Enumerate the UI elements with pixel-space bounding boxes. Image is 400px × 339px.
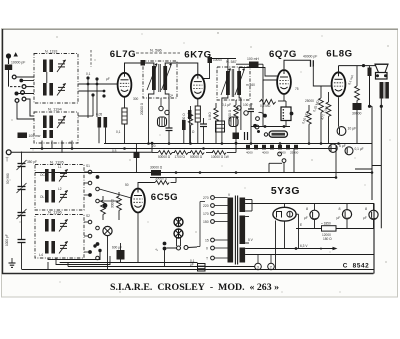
svg-text:8: 8	[365, 207, 367, 211]
capacitor mid 180	[182, 120, 186, 143]
power transformer secondary HT	[240, 216, 246, 245]
bus wire y228	[296, 228, 374, 230]
svg-text:30000: 30000	[111, 199, 115, 208]
wire right vertical bus 1	[371, 106, 373, 169]
wire right vertical bus 2	[380, 106, 382, 228]
svg-text:10000 Ω 1W: 10000 Ω 1W	[211, 155, 229, 159]
junction dots bus y172	[175, 171, 374, 179]
winding unit B2	[43, 130, 53, 138]
svg-text:C 8542: C 8542	[343, 263, 370, 270]
svg-text:220: 220	[203, 204, 209, 208]
svg-text:N. 1194: N. 1194	[48, 107, 62, 112]
band switch contacts lower	[88, 220, 99, 260]
resistor 50000 AVC zigzag	[158, 151, 172, 159]
mains switch	[155, 242, 188, 252]
svg-text:75: 75	[295, 87, 299, 91]
wire IF1 bottoms down	[149, 90, 170, 144]
IF transformer N.586	[136, 48, 180, 99]
antenna coil box N.1193	[34, 50, 78, 104]
wire box A lower tap	[79, 90, 106, 93]
capacitor 10000 pF antenna	[5, 61, 26, 71]
antenna coil box N.1194	[34, 107, 78, 144]
tube 6C5G oscillator	[131, 189, 145, 213]
wire avc joints	[151, 142, 238, 153]
speaker field coil	[368, 66, 372, 76]
svg-text:0,5 MΩ: 0,5 MΩ	[260, 104, 271, 108]
switch contact extra	[255, 125, 259, 129]
winding unit A1	[43, 60, 66, 73]
wire 6K7G to bus	[197, 122, 199, 143]
scan speckles	[10, 32, 391, 292]
tube 6Q7G	[277, 70, 291, 94]
wire 6K7G plate up	[204, 59, 210, 79]
IF2 padder component	[229, 117, 238, 127]
voltage selector terminals	[203, 196, 214, 261]
svg-text:270: 270	[203, 196, 209, 200]
wires coils to switch	[84, 172, 88, 252]
wire vertical x88	[87, 78, 89, 118]
secondary tap stubs	[245, 200, 252, 244]
wire speaker join horizontal	[372, 165, 381, 167]
terminal T	[6, 150, 12, 164]
winding unit A2	[43, 83, 66, 96]
wire inside box A	[46, 72, 48, 83]
IF1 trimmer screws	[159, 98, 169, 115]
bottom bus wire 3	[22, 269, 374, 271]
resistor 6K7G cathode	[195, 106, 200, 122]
coil mid 218	[216, 121, 225, 132]
svg-text:30000 Ω: 30000 Ω	[150, 166, 163, 170]
tube 6L7G	[118, 73, 132, 97]
IF1 primary winding	[152, 66, 156, 90]
wire resistor to bus	[124, 124, 126, 143]
capacitor 40000 pF coupling	[303, 55, 317, 67]
wire 6Q7G left grid leak	[263, 80, 277, 98]
winding unit O3	[45, 219, 68, 232]
svg-text:6C5G: 6C5G	[151, 192, 178, 203]
svg-text:5Y3G: 5Y3G	[271, 186, 300, 197]
top border line	[2, 29, 398, 31]
wire 6Q7G cathode down	[283, 95, 285, 101]
power transformer core	[235, 196, 237, 265]
svg-text:170: 170	[203, 212, 209, 216]
resistor 0,5 Mohm zigzag	[260, 99, 276, 108]
IF2 trimmer arrows	[221, 68, 245, 95]
wire 6Q7G grid cap top	[284, 60, 311, 69]
wire IF1 secondary to 6K7G grid	[165, 63, 198, 74]
svg-text:10000 pF: 10000 pF	[11, 61, 25, 65]
speaker cone	[375, 64, 389, 72]
capacitor 600 uF	[112, 246, 125, 260]
IF2 core	[232, 69, 234, 97]
bus wire y172.8	[35, 172, 372, 174]
capacitor 0,1 uF mains	[190, 259, 205, 271]
terminal a2	[10, 85, 34, 89]
resistor osc grid vertical zigzag	[111, 192, 122, 220]
wire 6L8G grid left	[313, 67, 331, 86]
svg-text:40000 pF: 40000 pF	[303, 55, 317, 59]
tone switch contacts	[269, 149, 294, 173]
svg-text:0,05: 0,05	[96, 113, 102, 117]
svg-text:L1: L1	[58, 165, 62, 169]
lamp terminal 3	[255, 255, 262, 270]
wire antenna down	[8, 70, 10, 87]
winding unit O2	[45, 190, 68, 203]
antenna terminal A	[6, 52, 18, 64]
wire right vertical to corner	[371, 169, 373, 200]
svg-text:OL: OL	[40, 195, 44, 199]
svg-text:8: 8	[306, 207, 308, 211]
svg-text:150: 150	[203, 220, 209, 224]
dial lamp 1	[174, 218, 183, 227]
wires box N.1194 drops	[42, 141, 72, 153]
wire 5Y3G plate drop	[284, 203, 286, 207]
terminal a1	[12, 75, 34, 79]
junction blob switch	[103, 203, 108, 208]
oscillator coil box N.1196	[35, 210, 84, 259]
tube 6L8G	[332, 72, 346, 96]
phono jack circle	[103, 226, 112, 235]
resistor 10000 1W zigzag	[211, 151, 229, 159]
choke 100 mH	[236, 57, 263, 127]
resistor 50000 zigzag 2	[190, 151, 204, 159]
lamp terminal 2	[268, 255, 275, 270]
capacitor 6L7G cathode	[96, 113, 107, 128]
wire 6L8G cathode down	[338, 97, 340, 127]
svg-text:50000 Ω: 50000 Ω	[190, 155, 203, 159]
svg-text:E: E	[300, 223, 302, 227]
switch contacts detector	[253, 112, 267, 127]
svg-text:L2: L2	[58, 187, 62, 191]
pickup jack oval	[251, 125, 290, 137]
wire switch to 6C5G	[99, 189, 131, 201]
wire B+ right vertical	[373, 203, 375, 273]
junction dot a	[19, 79, 34, 83]
power transformer secondary 5V	[240, 198, 246, 213]
svg-text:OC: OC	[40, 173, 45, 177]
wire coupling to 6L8G grid	[313, 63, 316, 65]
IF2 trimmer screws	[237, 106, 248, 115]
capacitor 6K7G bypass	[188, 110, 191, 143]
wire box N1196 drops	[48, 262, 68, 270]
shield dash line top	[90, 50, 92, 67]
svg-text:100 mw: 100 mw	[29, 134, 41, 138]
svg-text:1700 Ω: 1700 Ω	[175, 155, 186, 159]
svg-text:0: 0	[206, 247, 208, 251]
potentiometer volume box	[281, 101, 293, 127]
svg-text:180 Ω: 180 Ω	[323, 237, 332, 241]
resistor extra under 6L8G	[301, 105, 311, 143]
svg-text:50: 50	[125, 183, 129, 187]
bus wire y177.5	[150, 177, 336, 179]
capacitor block 10000 left of IF1	[141, 60, 146, 66]
svg-text:25000: 25000	[305, 99, 314, 103]
svg-text:15: 15	[205, 239, 209, 243]
svg-text:0,1 μF: 0,1 μF	[222, 103, 231, 107]
dots on y148	[41, 147, 205, 150]
wire elcap join vertical	[298, 229, 300, 249]
tuning gang cap 2	[17, 209, 27, 219]
svg-text:20000 Ω: 20000 Ω	[140, 102, 144, 115]
svg-text:50000 Ω: 50000 Ω	[155, 177, 168, 181]
bottom frame	[2, 273, 374, 275]
svg-text:S.I.A.R.E. CROSLEY - MOD.: S.I.A.R.E. CROSLEY - MOD. « 263 »	[110, 283, 279, 293]
wires selector left feeds	[197, 202, 205, 247]
wire 6C5G cathode down	[137, 213, 139, 231]
svg-text:S2: S2	[86, 214, 90, 218]
wire HT secondary top	[245, 203, 374, 205]
wire avc left end	[152, 143, 158, 152]
svg-text:100 mH: 100 mH	[247, 57, 259, 61]
capacitor 10 uF cathode	[337, 127, 356, 136]
svg-text:μF: μF	[190, 263, 194, 267]
wire speaker join	[355, 106, 372, 169]
capacitor 6 uF circle	[329, 144, 346, 152]
capacitor mid 200	[200, 118, 207, 143]
tube 6K7G	[191, 75, 205, 99]
svg-text:350 pF: 350 pF	[27, 160, 37, 164]
IF1 core	[159, 64, 161, 92]
heater wire 2	[245, 254, 374, 256]
svg-text:6 μF: 6 μF	[339, 144, 346, 148]
svg-text:N. 586: N. 586	[150, 48, 163, 53]
bottom bus wire 2	[68, 266, 255, 268]
svg-text:T: T	[206, 257, 208, 261]
svg-text:6L8G: 6L8G	[326, 49, 352, 60]
winding unit O4	[45, 241, 68, 254]
svg-text:L4: L4	[39, 253, 43, 257]
wire x336 vertical	[335, 146, 337, 178]
resistor 30000 block	[352, 103, 362, 144]
wire 6L7G cathode down	[124, 97, 126, 108]
misc tiny value labels	[40, 72, 322, 251]
wire weave bottom left 1	[48, 252, 100, 260]
junction dots bus row	[147, 142, 340, 145]
bottom bus wire 1	[60, 262, 198, 264]
oscillator coil box N.1195	[35, 160, 84, 211]
winding unit B1	[43, 116, 66, 129]
svg-text:μF: μF	[106, 77, 110, 81]
resistor 6L7G screen	[122, 108, 127, 124]
trimmer 350 pF	[17, 160, 37, 170]
svg-text:10 μF: 10 μF	[348, 127, 357, 131]
junction dots weave	[93, 244, 101, 252]
ground symbol bottom left	[9, 258, 16, 267]
dial lamp 2	[174, 229, 183, 238]
svg-text:μF: μF	[363, 216, 367, 220]
hanging parts row above bus	[233, 132, 248, 140]
IF1 secondary winding	[163, 66, 167, 90]
svg-text:N. 1196: N. 1196	[48, 210, 62, 215]
wire lamps down	[165, 238, 198, 267]
wires selector to primary	[214, 198, 227, 259]
svg-text:4000: 4000	[246, 151, 253, 155]
capacitor AVC 20000	[166, 128, 173, 143]
left frame	[2, 29, 4, 274]
svg-text:50000 Ω: 50000 Ω	[158, 155, 171, 159]
wire 5Y3G cathode down	[275, 221, 277, 270]
svg-text:0,5: 0,5	[112, 149, 117, 153]
wire cathode parts to bus	[99, 128, 106, 144]
svg-text:N. 1195: N. 1195	[50, 160, 64, 165]
power transformer primary	[228, 198, 234, 263]
electrolytic 8uF no1	[304, 203, 319, 228]
resistor osc cathode vertical zigzag	[101, 196, 106, 220]
wire 6L8G plate top to output	[339, 64, 377, 72]
svg-text:25000: 25000	[290, 151, 299, 155]
svg-text:1000 pF: 1000 pF	[5, 234, 9, 246]
resistor 100 ohm block	[18, 133, 41, 139]
svg-text:0,1: 0,1	[86, 72, 91, 76]
svg-text:50÷380: 50÷380	[6, 173, 10, 184]
wire gang vertical	[21, 152, 23, 270]
terminal a5	[15, 97, 34, 119]
svg-text:T: T	[6, 158, 9, 164]
bypass capacitor row	[246, 145, 299, 155]
tuning gang cap 1	[6, 173, 27, 193]
capacitor 1000 pF padder	[5, 234, 26, 246]
svg-text:6,3 V: 6,3 V	[300, 244, 308, 248]
wire T to right	[11, 151, 152, 153]
svg-text:20: 20	[152, 144, 156, 148]
output transformer windings	[380, 82, 389, 99]
wire weave bottom left 2	[56, 256, 110, 265]
bus wire y143	[104, 143, 372, 145]
wire box B right	[78, 95, 93, 116]
resistor 12000 filter block	[321, 222, 336, 242]
IF2 secondary winding	[237, 71, 241, 95]
svg-text:5000: 5000	[279, 151, 286, 155]
resistor 10000 screen	[208, 57, 223, 63]
speaker magnet block	[376, 73, 388, 80]
svg-text:S1: S1	[86, 164, 90, 168]
IF2 primary winding	[226, 71, 230, 95]
resistor 5000 ohm screen zigzag	[347, 66, 359, 103]
band switch contacts upper	[88, 170, 99, 203]
svg-text:∿: ∿	[155, 247, 158, 252]
wire 6C5G grid top	[138, 183, 155, 189]
wire vertical x97	[96, 79, 98, 117]
svg-text:0,1: 0,1	[116, 130, 121, 134]
wire 6L7G plate to IF1	[125, 63, 154, 73]
svg-text:4000: 4000	[262, 151, 269, 155]
resistor 1700 zigzag	[174, 151, 188, 159]
electrolytic 8uF no3	[363, 203, 378, 228]
resistor 0,25 Mohm zigzag	[312, 86, 323, 143]
svg-text:B: B	[320, 247, 322, 251]
wire 5Y3G output right	[296, 214, 298, 228]
wire IF2 primary top	[227, 59, 229, 72]
junction dots grid network	[86, 76, 105, 97]
resistor 50000 grid zigzag	[155, 177, 176, 185]
power transformer secondary 6,3V	[240, 248, 246, 263]
svg-text:450 Ω: 450 Ω	[182, 113, 186, 122]
bus wire y148	[30, 148, 336, 150]
wire 6K7G cathode parts	[197, 99, 199, 106]
tube 5Y3G rectifier	[273, 207, 296, 221]
svg-text:6L7G: 6L7G	[110, 49, 136, 60]
svg-text:8: 8	[339, 207, 341, 211]
resistor 50000 vertical zigzag mid	[228, 100, 238, 143]
svg-text:μF: μF	[304, 216, 308, 220]
resistor 1 Mohm zigzag	[208, 103, 218, 143]
IF transformer N.587	[217, 60, 250, 100]
terminal a3	[15, 92, 35, 96]
svg-text:μF: μF	[337, 216, 341, 220]
svg-text:0,1 μF: 0,1 μF	[355, 147, 364, 151]
wire IF2 to diode	[239, 68, 277, 77]
scan area	[2, 29, 398, 298]
svg-text:m 460: m 460	[246, 83, 255, 87]
wire box A to 6L7G grid	[79, 83, 118, 86]
terminal a4	[21, 91, 25, 95]
wire 5Y3G filament down	[284, 221, 286, 248]
svg-text:100 pF: 100 pF	[243, 103, 253, 107]
IF1 trimmer arrows	[147, 63, 172, 90]
resistor 450 under 6K7G zigzag	[182, 106, 193, 143]
wire speaker down left	[368, 76, 383, 108]
capacitor 250 pF detector	[248, 103, 254, 143]
electrolytic 8uF no2	[337, 203, 352, 228]
svg-text:6Q7G: 6Q7G	[269, 49, 297, 60]
wire IF2 bottoms	[222, 95, 241, 144]
wire top feed	[210, 58, 237, 60]
winding unit O1	[45, 169, 68, 182]
svg-text:300: 300	[133, 97, 139, 101]
resistor 0,05 Mohm zigzag	[320, 92, 331, 143]
capacitor 0,1 uF circle	[345, 147, 364, 155]
IF1 padder component	[158, 117, 167, 127]
svg-text:N. 1193: N. 1193	[45, 50, 57, 54]
heater wire with arrow	[245, 247, 337, 251]
svg-text:1 MΩ: 1 MΩ	[208, 112, 212, 120]
resistor 30000 mid block	[150, 166, 163, 176]
svg-text:≈ 1850: ≈ 1850	[321, 222, 331, 226]
capacitor 30 uF mid-left	[134, 144, 140, 173]
wire 6C5G cathode to bus	[108, 230, 139, 270]
